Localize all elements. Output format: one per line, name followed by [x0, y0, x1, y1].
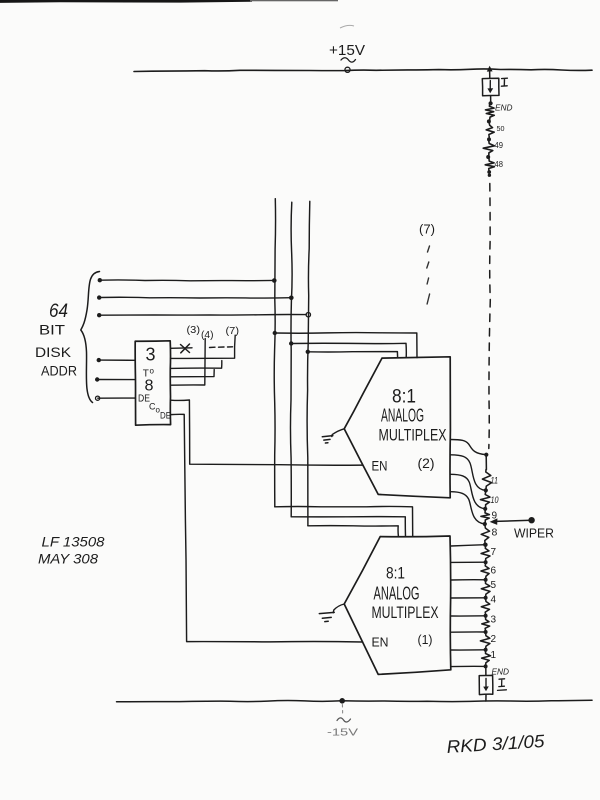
node tap 6 chain	[484, 560, 488, 564]
svg-text:50: 50	[497, 124, 505, 133]
node A0 junction	[306, 313, 310, 317]
wire U3 out to tap 4	[451, 597, 485, 599]
wire -15V power rail	[117, 700, 593, 702]
resistor R12-11	[482, 455, 491, 488]
resistor chain R2	[480, 633, 490, 648]
wire U2 out to tap 11	[451, 455, 486, 491]
wire U3 out to END	[451, 665, 485, 667]
svg-text:48: 48	[495, 160, 504, 169]
label -15V	[337, 718, 351, 722]
brace 64-bit group	[81, 272, 100, 403]
wire +15V power rail	[134, 69, 592, 72]
node tap 2 chain	[484, 630, 488, 634]
svg-text:8:1: 8:1	[392, 387, 416, 408]
wire decoder input 3	[98, 397, 135, 399]
svg-text:64: 64	[49, 301, 68, 322]
wire -15V stub	[341, 705, 343, 714]
node 49	[487, 137, 491, 141]
svg-text:EN: EN	[372, 635, 389, 650]
svg-text:ANALOG: ANALOG	[374, 584, 420, 604]
op-amp U3 8:1 analog multiplexer	[344, 536, 451, 674]
svg-text:o: o	[150, 367, 155, 376]
svg-text:END: END	[495, 103, 513, 113]
node tap END chain	[484, 664, 488, 668]
wire END to current source	[485, 667, 487, 675]
svg-text:EN: EN	[372, 458, 388, 474]
node tap 5 chain	[484, 578, 488, 582]
resistor chain R4	[481, 599, 490, 615]
node A1 junction	[289, 296, 294, 301]
svg-text:-15V: -15V	[327, 727, 358, 739]
node tap 3 chain	[484, 614, 488, 618]
wire decoder output to (7)	[171, 335, 236, 358]
resistor R9-8	[481, 526, 489, 543]
node END (top)	[489, 101, 493, 105]
svg-text:END: END	[492, 667, 510, 677]
label I (top)	[501, 78, 507, 86]
wire U3 out to tap 1	[451, 649, 485, 651]
svg-text:MAY 308: MAY 308	[38, 551, 98, 567]
wire A2 to U2	[275, 333, 417, 358]
svg-text:11: 11	[491, 476, 499, 487]
svg-text:(1): (1)	[418, 632, 433, 647]
wire U2 out to tap 10	[451, 474, 485, 508]
wire A0 to U2	[308, 352, 398, 358]
resistor 50	[486, 123, 494, 137]
wire U3 out to tap 6	[451, 561, 485, 563]
wire addr A1	[99, 296, 291, 299]
wire U3 out to tap 2	[451, 631, 485, 633]
wire A1 to U3	[291, 517, 405, 537]
node addr A1 left	[97, 295, 101, 299]
wire decoder output to (4)	[171, 339, 206, 386]
svg-text:7: 7	[491, 547, 497, 558]
wire U3 out to tap 7	[451, 545, 485, 546]
svg-text:4: 4	[491, 595, 497, 606]
wire current source to -15V rail	[485, 695, 487, 701]
svg-text:8: 8	[145, 378, 154, 395]
node 50	[487, 119, 491, 123]
svg-text:BIT: BIT	[39, 322, 66, 338]
svg-text:LF 13508: LF 13508	[42, 534, 105, 550]
ground U3	[333, 604, 344, 613]
node tap 1 chain	[484, 648, 488, 652]
node tap 10	[483, 507, 487, 511]
svg-text:6: 6	[491, 566, 497, 577]
svg-text:3: 3	[491, 615, 497, 626]
node 48	[486, 155, 490, 159]
wire decoder output stub a	[171, 361, 222, 369]
resistor chain R3	[482, 617, 490, 631]
wire U2 out to tap 12	[451, 440, 486, 455]
wire bus line A0 vertical	[307, 201, 310, 525]
op-amp U2 8:1 analog multiplexer	[344, 357, 450, 498]
label I (bottom)	[498, 679, 507, 691]
node A2 junction	[272, 278, 277, 283]
svg-text:DE: DE	[160, 411, 171, 421]
node A1 branch	[289, 341, 293, 345]
wire decoder output 0 (unused)	[171, 347, 192, 350]
node tap 8	[483, 543, 487, 547]
node decoder input 3	[96, 396, 100, 400]
svg-text:+15V: +15V	[329, 42, 365, 59]
wire bus line A2 vertical	[274, 199, 275, 507]
node tap 11	[484, 488, 488, 492]
svg-text:2: 2	[491, 634, 497, 645]
svg-text:(7): (7)	[226, 325, 240, 337]
svg-text:3: 3	[146, 345, 156, 365]
svg-text:10: 10	[491, 495, 500, 506]
node addr A2 left	[98, 278, 102, 282]
node +15V connector	[345, 67, 350, 72]
svg-text:(2): (2)	[418, 455, 435, 471]
wire addr A0	[99, 313, 306, 316]
node -15V connector	[339, 698, 345, 704]
svg-text:RKD 3/1/05: RKD 3/1/05	[446, 731, 546, 757]
node A0 branch	[306, 350, 310, 354]
resistor chain R6	[481, 563, 489, 578]
node decoder input 1	[97, 358, 101, 362]
node addr A0 left	[97, 313, 101, 317]
wire dashed 7-line bus mark	[427, 246, 430, 304]
resistor chain R1	[482, 651, 491, 665]
resistor END (top)	[485, 104, 494, 120]
node tap 7 chain	[484, 543, 488, 547]
svg-text:MULTIPLEX: MULTIPLEX	[372, 603, 439, 622]
wire A0 to U3	[308, 526, 399, 537]
X mark unused output	[181, 344, 190, 353]
wire decoder input 2	[97, 379, 135, 381]
wire dashed resistor chain continuation	[489, 184, 491, 449]
wire A1 to U2	[291, 343, 406, 357]
svg-text:8:1: 8:1	[386, 564, 405, 583]
svg-text:(4): (4)	[201, 329, 214, 341]
wire wiper	[496, 520, 531, 521]
svg-text:5: 5	[491, 580, 497, 591]
wire decoder input 1	[99, 359, 135, 361]
resistor R10-9	[481, 510, 490, 522]
node tap 4 chain	[484, 596, 488, 600]
wire addr A2	[100, 279, 274, 282]
svg-text:ADDR: ADDR	[41, 363, 77, 379]
decoder U1 3-to-8	[135, 341, 170, 425]
svg-text:(3): (3)	[187, 324, 201, 336]
wire decoder output EN1 to mux U3	[171, 414, 363, 642]
wire bus line A1 vertical	[290, 202, 292, 517]
resistor 49	[483, 141, 494, 155]
node tap 9	[483, 522, 487, 526]
svg-text:MULTIPLEX: MULTIPLEX	[379, 426, 447, 445]
svg-text:8: 8	[492, 527, 498, 539]
wire U3 out to tap 5	[451, 579, 485, 581]
wire A2 to U3	[275, 506, 413, 536]
wire rail to current source I	[489, 71, 491, 79]
resistor 48	[485, 159, 494, 171]
resistor chain R5	[481, 581, 490, 597]
svg-text:WIPER: WIPER	[514, 527, 554, 541]
wire decoder output EN2 to mux U2	[171, 400, 363, 465]
current source I2 (bottom)	[479, 675, 493, 694]
wire box to chain	[490, 96, 492, 103]
wire U3 out to tap 3	[451, 615, 485, 617]
svg-text:DISK: DISK	[35, 344, 72, 360]
wire U2 out to tap 9	[451, 492, 485, 524]
svg-text:(7): (7)	[419, 222, 435, 237]
svg-text:1: 1	[491, 650, 497, 661]
current source I1 (top)	[482, 78, 499, 96]
node chain break (top)	[487, 170, 491, 174]
node A2 branch	[273, 331, 277, 335]
svg-text:49: 49	[495, 141, 504, 150]
node wiper terminal	[528, 517, 534, 523]
svg-text:ANALOG: ANALOG	[381, 406, 424, 426]
resistor chain R7	[481, 546, 490, 561]
node tap 12	[484, 453, 488, 457]
ground U2	[332, 429, 344, 437]
wire dashed omitted outputs	[210, 346, 233, 349]
wire decoder output stub b	[171, 370, 215, 377]
node decoder input 2	[95, 377, 99, 381]
resistor R11-10	[480, 492, 490, 507]
